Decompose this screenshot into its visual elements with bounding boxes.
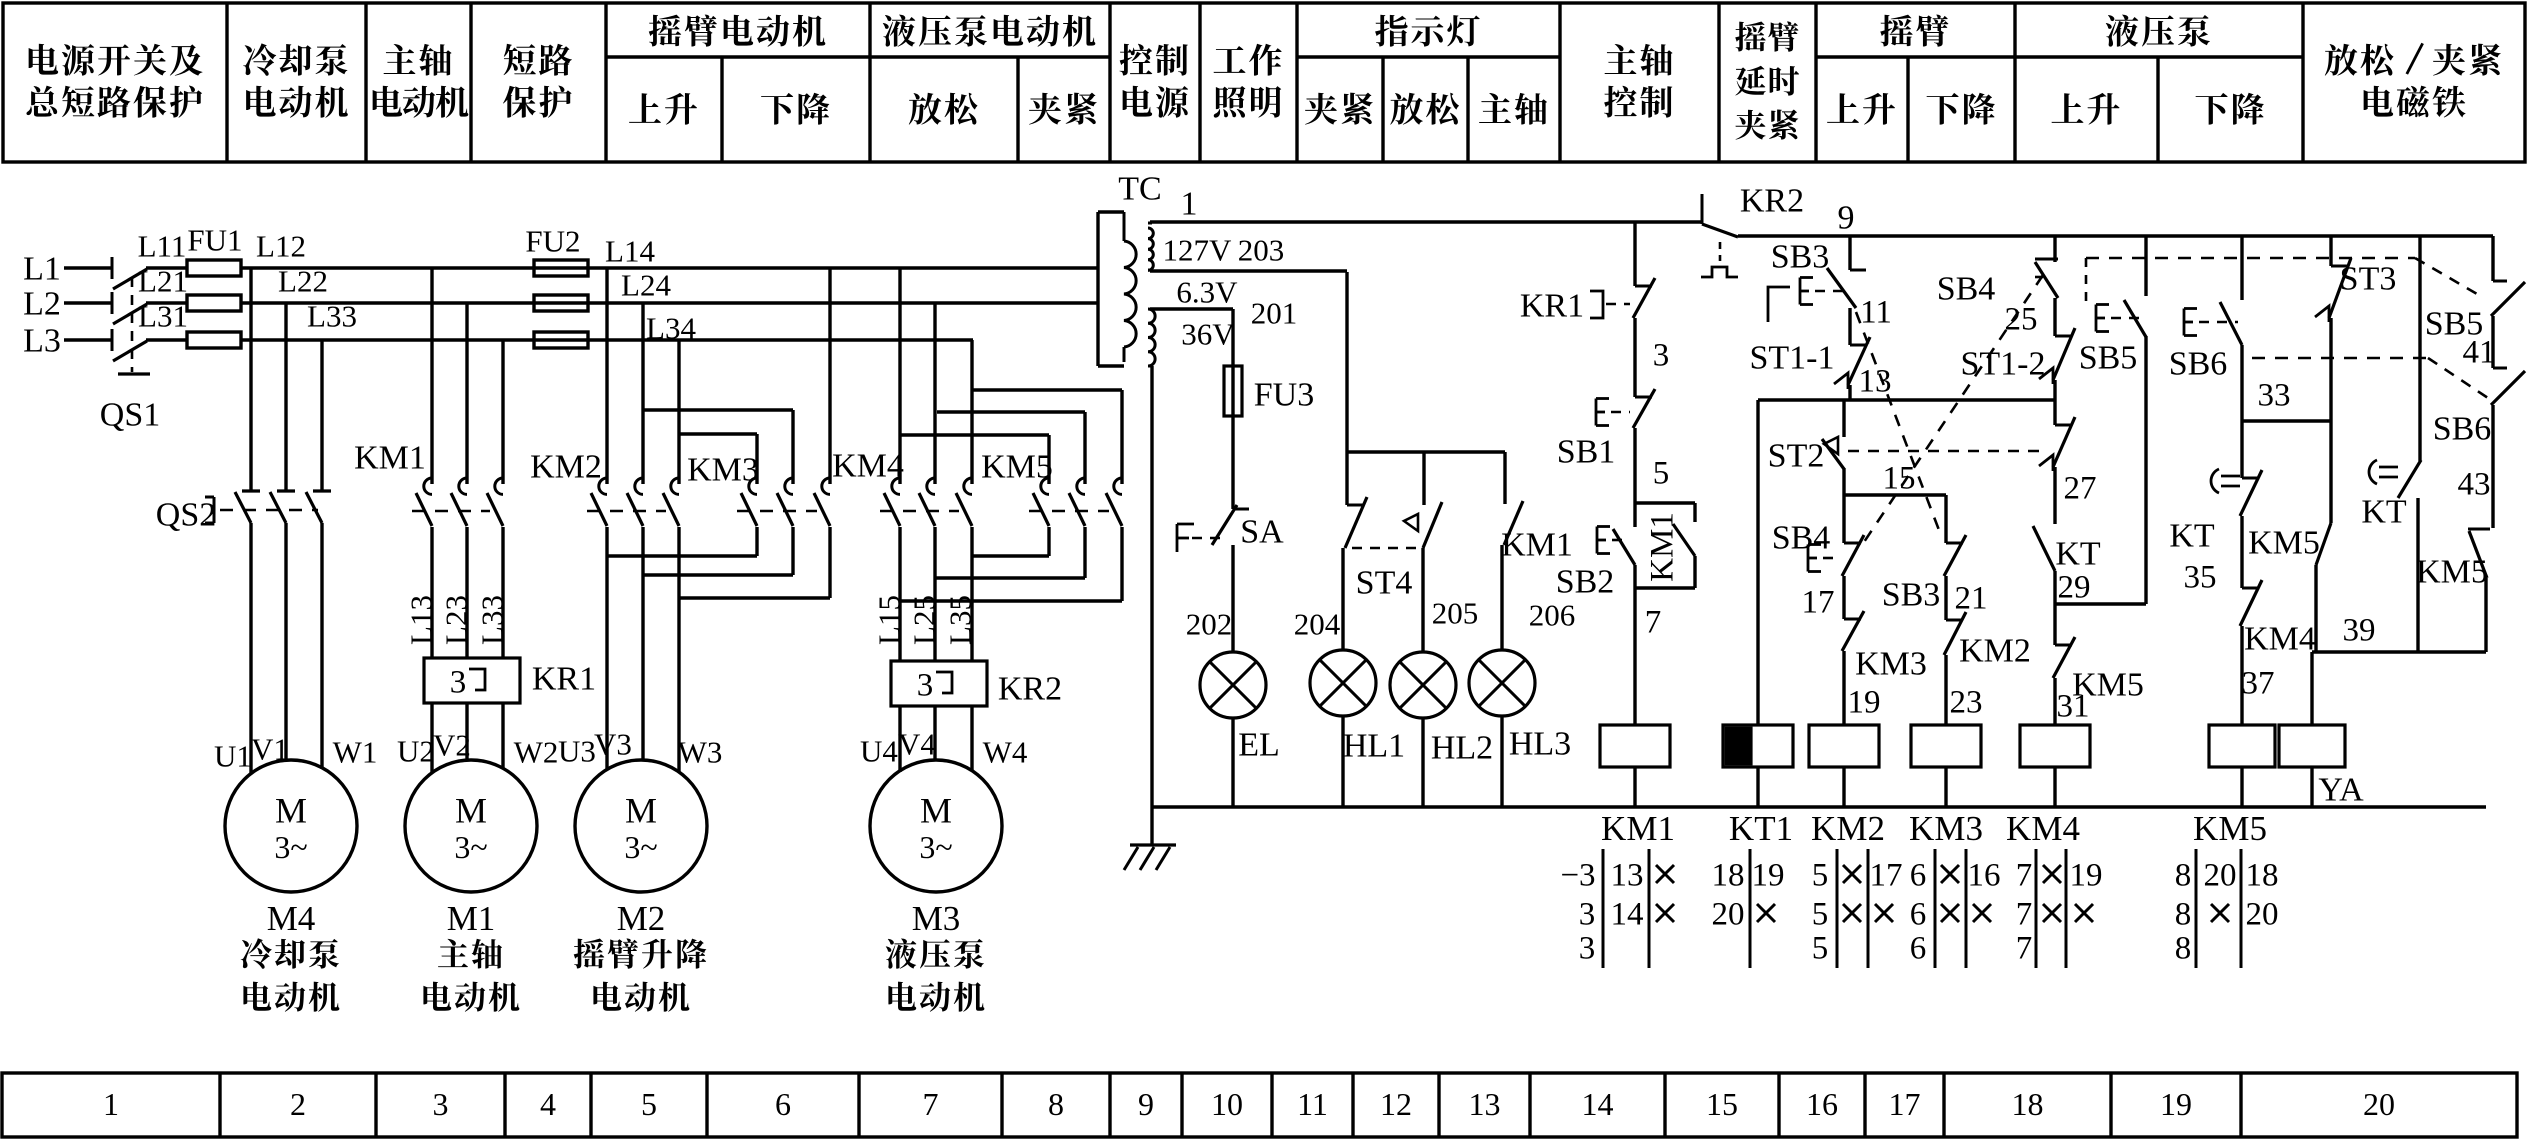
svg-text:KM2: KM2 (1811, 809, 1885, 848)
svg-text:5: 5 (1812, 896, 1829, 932)
svg-text:KR1: KR1 (532, 661, 596, 698)
svg-text:1: 1 (103, 1086, 119, 1122)
table KM5 (2195, 849, 2198, 968)
svg-text:KM3: KM3 (1909, 809, 1983, 848)
return bus and ground (1152, 805, 2486, 808)
thermal relay KR1 (424, 658, 520, 703)
contactor KM5 contacts with feeders (901, 433, 1049, 436)
table KM3 (1934, 849, 1937, 968)
svg-text:L14: L14 (605, 234, 655, 269)
svg-text:L3: L3 (23, 323, 61, 360)
svg-text:L22: L22 (278, 264, 328, 299)
svg-text:9: 9 (1138, 1086, 1154, 1122)
svg-text:FU1: FU1 (187, 223, 242, 258)
svg-text:L13: L13 (404, 595, 439, 645)
KM2/KM3 output links (605, 527, 608, 770)
contact KM5 aux (2316, 523, 2331, 565)
svg-text:3: 3 (433, 1086, 449, 1122)
svg-text:L1: L1 (23, 251, 61, 288)
svg-text:206: 206 (1529, 598, 1576, 633)
limit switch ST3 (2329, 236, 2332, 266)
svg-text:HL3: HL3 (1509, 726, 1571, 763)
button SB3 second contact (1944, 495, 1947, 543)
svg-text:L15: L15 (872, 595, 907, 645)
svg-text:EL: EL (1238, 727, 1280, 764)
coil KT1 and node 13 rung (1756, 400, 1759, 725)
svg-text:1: 1 (1181, 186, 1198, 223)
svg-text:25: 25 (2005, 301, 2038, 337)
svg-text:ST2: ST2 (1768, 438, 1825, 475)
svg-text:6: 6 (775, 1086, 791, 1122)
buttons SB5/SB6 NC column (2491, 236, 2494, 281)
svg-text:L12: L12 (256, 229, 306, 264)
svg-text:KM1: KM1 (1644, 512, 1680, 582)
svg-text:M3: M3 (912, 899, 961, 938)
svg-text:33: 33 (2258, 377, 2291, 413)
svg-text:KM5: KM5 (2193, 809, 2267, 848)
wire node 203 (1150, 269, 1347, 272)
svg-text:14: 14 (1582, 1086, 1614, 1122)
svg-text:18: 18 (1712, 857, 1745, 893)
svg-text:L25: L25 (907, 595, 942, 645)
wire 36V down to return bus (1148, 365, 1152, 368)
transformer TC (1096, 212, 1099, 366)
svg-text:ST3: ST3 (2340, 261, 2397, 298)
svg-text:20: 20 (1712, 896, 1745, 932)
contact KM1 aux for HL3 (1504, 501, 1523, 545)
svg-text:127V: 127V (1163, 233, 1233, 268)
svg-text:KR2: KR2 (998, 671, 1062, 708)
svg-text:KT: KT (2055, 536, 2101, 573)
table KM2 (1836, 849, 1839, 968)
svg-text:2: 2 (290, 1086, 306, 1122)
motor M3 (870, 760, 1002, 892)
button SB1 (1633, 318, 1636, 397)
svg-text:YA: YA (2318, 772, 2364, 809)
indicator lamps branch node 203 (1345, 272, 1348, 452)
svg-text:KM1: KM1 (1501, 527, 1573, 564)
wire node 15 rung (1842, 468, 1845, 543)
svg-text:3: 3 (1653, 337, 1670, 373)
dashed link SB4 (1862, 275, 2043, 545)
motor M4 (225, 760, 357, 892)
svg-text:23: 23 (1950, 684, 1983, 720)
svg-text:ST4: ST4 (1356, 565, 1413, 602)
table KT1 (1749, 849, 1752, 968)
svg-text:KT: KT (2169, 518, 2215, 555)
button SB4 second contact (1844, 542, 1861, 545)
svg-text:M: M (920, 790, 952, 830)
svg-text:SA: SA (1240, 514, 1284, 551)
svg-text:31: 31 (2057, 688, 2090, 724)
svg-text:19: 19 (2070, 857, 2103, 893)
svg-text:KM2: KM2 (1959, 633, 2031, 670)
svg-text:20: 20 (2363, 1086, 2395, 1122)
svg-text:9: 9 (1838, 200, 1855, 237)
svg-text:W3: W3 (678, 735, 723, 770)
svg-text:M1: M1 (447, 899, 496, 938)
limit switch ST1-1 (1848, 308, 1851, 345)
svg-text:19: 19 (1848, 684, 1881, 720)
svg-text:5: 5 (641, 1086, 657, 1122)
svg-text:U4: U4 (860, 734, 898, 769)
svg-text:U3: U3 (558, 734, 596, 769)
svg-text:L11: L11 (138, 229, 187, 264)
svg-text:KM1: KM1 (354, 440, 426, 477)
contact KM5 aux right (2468, 528, 2490, 531)
contact KM2 interlock (1944, 576, 1947, 620)
rung KM1: contact KR1 (1633, 222, 1636, 286)
dashed link SB5 (2085, 258, 2088, 306)
svg-text:W1: W1 (333, 735, 378, 770)
svg-text:5: 5 (1653, 455, 1670, 491)
svg-text:6.3V: 6.3V (1176, 275, 1238, 310)
button SB3 (1848, 236, 1851, 270)
wire node 29 rung (2053, 571, 2056, 645)
wire to lamp EL (1231, 545, 1234, 652)
svg-text:39: 39 (2343, 612, 2376, 648)
svg-text:8: 8 (1048, 1086, 1064, 1122)
svg-text:L35: L35 (943, 595, 978, 645)
svg-text:W2: W2 (514, 735, 559, 770)
svg-text:13: 13 (1859, 363, 1892, 399)
lamp EL (1200, 652, 1266, 718)
svg-text:3~: 3~ (919, 829, 952, 865)
svg-text:7: 7 (1645, 604, 1662, 640)
coil KM3 (1944, 655, 1947, 725)
button SB4 first contact (2053, 236, 2056, 262)
svg-text:20: 20 (2204, 857, 2237, 893)
thermal relay KR2 (891, 661, 987, 706)
svg-text:17: 17 (1870, 857, 1903, 893)
svg-text:205: 205 (1432, 596, 1479, 631)
svg-text:KM3: KM3 (1855, 646, 1927, 683)
svg-text:ST1-2: ST1-2 (1961, 346, 2046, 383)
svg-text:3~: 3~ (624, 829, 657, 865)
solenoid YA (2310, 652, 2313, 725)
branch M1: contactor KM1 main contacts (430, 268, 433, 484)
svg-text:FU2: FU2 (525, 224, 580, 259)
svg-text:KM5: KM5 (2416, 554, 2488, 591)
svg-text:SB2: SB2 (1556, 564, 1615, 601)
button SB6 NO contact (2240, 236, 2243, 300)
motor M2 (575, 760, 707, 892)
svg-text:M4: M4 (267, 899, 316, 938)
svg-text:KR2: KR2 (1740, 183, 1804, 220)
svg-text:W4: W4 (983, 735, 1028, 770)
svg-text:U1: U1 (214, 739, 252, 774)
contact KM3 interlock (1842, 576, 1845, 619)
svg-text:U2: U2 (397, 734, 435, 769)
svg-text:18: 18 (2012, 1086, 2044, 1122)
svg-text:V2: V2 (433, 728, 471, 763)
svg-text:QS1: QS1 (100, 397, 160, 434)
svg-text:3: 3 (1579, 896, 1596, 932)
svg-text:3: 3 (1579, 930, 1596, 966)
svg-text:41: 41 (2463, 334, 2496, 370)
svg-text:13: 13 (1611, 857, 1644, 893)
svg-text:SB3: SB3 (1771, 239, 1830, 276)
svg-text:KT1: KT1 (1729, 809, 1793, 848)
svg-text:3~: 3~ (274, 829, 307, 865)
branch M4: taps and QS2 (249, 268, 252, 491)
svg-text:43: 43 (2458, 466, 2491, 502)
limit switch ST2 second contact (2055, 424, 2072, 427)
svg-text:L34: L34 (646, 311, 696, 346)
wire 6.3V to FU3 (1150, 307, 1233, 310)
svg-text:16: 16 (1968, 857, 2001, 893)
svg-text:27: 27 (2064, 470, 2097, 506)
fuse FU3 (1231, 366, 1234, 509)
svg-text:21: 21 (1955, 580, 1988, 616)
limit switch ST4 changeover (1347, 504, 1364, 507)
coil KM5 (2240, 626, 2243, 725)
dashed link SB6 (2252, 357, 2428, 360)
svg-text:15: 15 (1706, 1086, 1738, 1122)
KM4/KM5 output links (898, 527, 901, 661)
svg-text:−3: −3 (1560, 857, 1595, 893)
svg-text:8: 8 (2175, 896, 2192, 932)
svg-text:L21: L21 (138, 264, 188, 299)
svg-text:7: 7 (923, 1086, 939, 1122)
wire node 39 rung (2312, 650, 2486, 653)
svg-text:SB6: SB6 (2169, 346, 2228, 383)
svg-text:L31: L31 (138, 299, 188, 334)
button SB5 NO contact (2144, 236, 2147, 296)
limit switch ST1-2 (2053, 298, 2056, 336)
header table (3, 3, 2525, 162)
svg-text:KM3: KM3 (687, 452, 759, 489)
branch M3: contactor KM4 contacts (898, 268, 901, 484)
svg-text:19: 19 (2160, 1086, 2192, 1122)
svg-text:TC: TC (1118, 171, 1161, 208)
svg-text:KM5: KM5 (981, 449, 1053, 486)
svg-text:11: 11 (1297, 1086, 1328, 1122)
svg-text:7: 7 (2016, 896, 2033, 932)
svg-text:M: M (275, 790, 307, 830)
svg-text:L33: L33 (475, 595, 510, 645)
motor M1 (405, 760, 537, 892)
svg-text:6: 6 (1910, 896, 1927, 932)
svg-text:3: 3 (917, 667, 934, 703)
svg-text:203: 203 (1238, 233, 1285, 268)
svg-text:SB4: SB4 (1937, 271, 1996, 308)
svg-text:V3: V3 (594, 727, 632, 762)
coil KM4 (2053, 678, 2056, 725)
bus L12 L22 L33 (241, 266, 1098, 269)
svg-text:14: 14 (1611, 896, 1644, 932)
wires L11 L21 L31 to FU1 (146, 266, 187, 269)
contact KT delayed NC (2242, 477, 2259, 480)
svg-text:KM2: KM2 (530, 449, 602, 486)
svg-text:3~: 3~ (454, 829, 487, 865)
coil KM1 (1633, 565, 1636, 725)
svg-text:KM5: KM5 (2248, 525, 2320, 562)
svg-text:4: 4 (540, 1086, 556, 1122)
dashed link SB3 (1856, 312, 1942, 538)
switch SA (1233, 508, 1249, 511)
svg-text:FU3: FU3 (1254, 377, 1314, 414)
svg-text:L24: L24 (621, 268, 671, 303)
svg-text:L23: L23 (439, 595, 474, 645)
svg-text:M2: M2 (617, 899, 666, 938)
svg-text:29: 29 (2058, 569, 2091, 605)
svg-text:8: 8 (2175, 930, 2192, 966)
svg-text:QS2: QS2 (156, 497, 216, 534)
svg-text:5: 5 (1812, 930, 1829, 966)
svg-text:HL2: HL2 (1431, 730, 1493, 767)
svg-text:SB4: SB4 (1772, 520, 1831, 557)
svg-text:V4: V4 (898, 727, 936, 762)
svg-text:KM4: KM4 (2244, 621, 2316, 658)
svg-text:35: 35 (2184, 559, 2217, 595)
svg-text:KM4: KM4 (2006, 809, 2080, 848)
bottom number row (2, 1073, 2517, 1137)
svg-text:SB3: SB3 (1882, 577, 1941, 614)
wire node 33 rung (2240, 345, 2243, 478)
switch QS1 (111, 257, 114, 279)
wire node 9 bus (1738, 234, 2493, 237)
relay KR2 contact on bus (1701, 194, 1704, 224)
contact KT instantaneous (2053, 467, 2056, 524)
svg-text:17: 17 (1889, 1086, 1921, 1122)
limit switch ST2 contact (1842, 400, 1845, 437)
svg-text:SB6: SB6 (2433, 411, 2492, 448)
svg-text:3: 3 (450, 664, 467, 700)
svg-text:7: 7 (2016, 857, 2033, 893)
svg-text:11: 11 (1860, 294, 1892, 330)
svg-text:M: M (625, 790, 657, 830)
svg-text:17: 17 (1802, 584, 1835, 620)
svg-text:204: 204 (1294, 607, 1341, 642)
table KM4 (2035, 849, 2038, 968)
table KM1 (1602, 849, 1605, 968)
contact KT delayed NO right (2418, 236, 2421, 461)
svg-text:37: 37 (2242, 665, 2275, 701)
svg-text:SB1: SB1 (1557, 434, 1616, 471)
svg-text:20: 20 (2246, 896, 2279, 932)
svg-text:202: 202 (1186, 607, 1233, 642)
svg-text:5: 5 (1812, 857, 1829, 893)
svg-text:M: M (455, 790, 487, 830)
svg-text:SB5: SB5 (2079, 340, 2138, 377)
fuse FU2 (534, 260, 588, 276)
svg-text:KM4: KM4 (832, 448, 904, 485)
svg-text:HL1: HL1 (1343, 728, 1405, 765)
svg-text:201: 201 (1251, 296, 1298, 331)
svg-text:12: 12 (1380, 1086, 1412, 1122)
contact KM4 interlock (2240, 516, 2243, 588)
svg-text:10: 10 (1211, 1086, 1243, 1122)
lamps HL1 HL2 HL3 (1310, 650, 1376, 716)
svg-text:6: 6 (1910, 930, 1927, 966)
svg-text:19: 19 (1752, 857, 1785, 893)
svg-text:18: 18 (2246, 857, 2279, 893)
button SB2 with KM1 self-hold contact (1633, 428, 1636, 527)
svg-text:13: 13 (1469, 1086, 1501, 1122)
branch M2: contactor KM2 contacts (605, 268, 608, 484)
svg-text:6: 6 (1910, 857, 1927, 893)
coil KM2 (1842, 651, 1845, 725)
svg-text:7: 7 (2016, 930, 2033, 966)
svg-text:36V: 36V (1181, 317, 1235, 352)
svg-text:16: 16 (1806, 1086, 1838, 1122)
svg-text:KM1: KM1 (1601, 809, 1675, 848)
svg-text:8: 8 (2175, 857, 2192, 893)
contactor KM3 contacts with crossed feeders (643, 408, 793, 411)
wire node 1 bus (1150, 220, 1702, 223)
svg-text:KR1: KR1 (1520, 288, 1584, 325)
contact KM5 interlock (2055, 644, 2072, 647)
svg-text:KT: KT (2361, 494, 2407, 531)
svg-text:15: 15 (1883, 460, 1916, 496)
svg-text:L33: L33 (307, 299, 357, 334)
fuse FU1 (187, 260, 241, 276)
svg-text:L2: L2 (23, 286, 61, 323)
svg-text:ST1-1: ST1-1 (1750, 340, 1835, 377)
